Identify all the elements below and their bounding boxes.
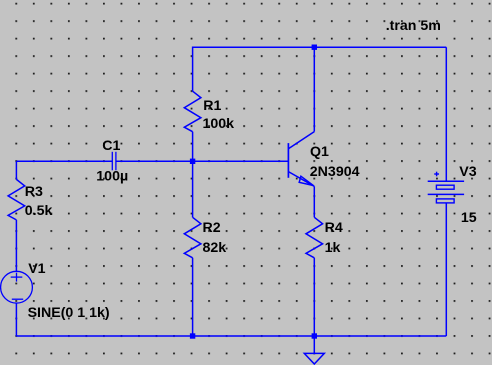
svg-text:15: 15 xyxy=(461,210,477,226)
voltage source V1 xyxy=(1,271,33,303)
svg-text:SINE(0 1 1k): SINE(0 1 1k) xyxy=(28,305,110,321)
svg-text:R1: R1 xyxy=(203,98,221,114)
wire R4 to bottom xyxy=(313,258,315,336)
battery V3 xyxy=(428,172,464,203)
svg-text:100µ: 100µ xyxy=(96,168,128,184)
svg-text:Q1: Q1 xyxy=(310,144,329,160)
capacitor C1 xyxy=(112,152,116,171)
svg-text:0.5k: 0.5k xyxy=(25,203,53,219)
junction bottom emitter xyxy=(312,333,317,338)
svg-text:R2: R2 xyxy=(203,220,221,236)
wire R1 bottom stub xyxy=(192,132,194,162)
resistor R2 xyxy=(184,217,201,257)
svg-text:82k: 82k xyxy=(203,240,227,256)
wire right branch upper xyxy=(445,47,447,181)
wire R3 to V1 xyxy=(15,220,17,271)
wire top rail xyxy=(193,46,447,48)
wire emitter stub xyxy=(313,186,315,217)
resistor R3 xyxy=(8,179,25,220)
junction bottom R2 xyxy=(190,333,195,338)
svg-text:100k: 100k xyxy=(203,116,235,132)
junction mid node xyxy=(190,159,195,164)
svg-text:.tran 5m: .tran 5m xyxy=(386,18,441,34)
svg-text:R3: R3 xyxy=(25,184,43,200)
wire mid left segment xyxy=(16,160,112,162)
resistor R1 xyxy=(184,91,201,132)
svg-text:C1: C1 xyxy=(102,138,120,154)
svg-text:V3: V3 xyxy=(459,164,476,180)
wire V1 to bottom xyxy=(15,303,17,336)
wire V3 to bottom xyxy=(445,203,447,336)
svg-text:1k: 1k xyxy=(325,240,341,256)
wire C1 to mid junction xyxy=(116,160,193,162)
svg-text:V1: V1 xyxy=(28,261,45,277)
transistor Q1 xyxy=(288,132,314,187)
wire R2 to bottom xyxy=(192,258,194,336)
ground xyxy=(304,353,324,364)
ground stub xyxy=(313,336,315,353)
resistor R4 xyxy=(306,217,323,257)
wire R2 top stub xyxy=(192,161,194,217)
svg-text:2N3904: 2N3904 xyxy=(310,164,360,180)
junction top collector xyxy=(312,45,317,50)
wire bottom rail xyxy=(16,335,446,337)
svg-text:R4: R4 xyxy=(325,220,343,236)
wire left branch upper xyxy=(15,161,17,179)
wire base xyxy=(193,160,289,162)
wire collector xyxy=(313,47,315,131)
wire R1 top stub xyxy=(192,47,194,92)
